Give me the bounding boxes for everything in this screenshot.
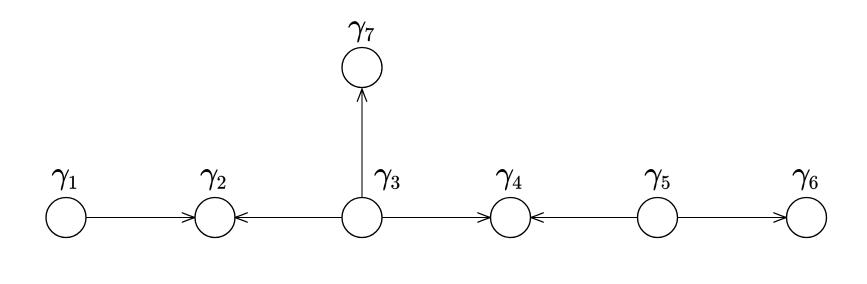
arrowhead gamma5-to-gamma6 xyxy=(774,213,787,222)
label gamma_7 xyxy=(349,21,374,42)
wire edge gamma5-to-gamma6 xyxy=(678,217,787,219)
arrowhead gamma3-to-gamma7 xyxy=(357,89,366,102)
label gamma_1 xyxy=(52,169,76,190)
label gamma_3 xyxy=(375,169,400,190)
node gamma_2 circle xyxy=(195,198,235,238)
wire edge gamma5-to-gamma4 xyxy=(531,217,638,219)
label gamma_5 xyxy=(645,169,670,190)
node gamma_6 circle xyxy=(787,198,827,238)
label gamma_4 xyxy=(496,169,521,190)
arrowhead gamma3-to-gamma2 xyxy=(235,213,248,222)
wire edge gamma3-to-gamma4 xyxy=(382,217,490,219)
node gamma_1 circle xyxy=(46,198,86,238)
arrowhead gamma1-to-gamma2 xyxy=(182,213,195,222)
wire edge gamma1-to-gamma2 xyxy=(86,217,195,219)
label gamma_6 xyxy=(793,169,818,190)
node gamma_3 circle xyxy=(342,198,382,238)
wire edge gamma3-to-gamma2 xyxy=(235,217,342,219)
label gamma_2 xyxy=(201,169,226,190)
node gamma_5 circle xyxy=(638,198,678,238)
wire edge gamma3-to-gamma7 xyxy=(361,89,363,198)
node gamma_4 circle xyxy=(491,198,531,238)
arrowhead gamma3-to-gamma4 xyxy=(478,213,491,222)
arrowhead gamma5-to-gamma4 xyxy=(531,213,544,222)
node gamma_7 circle xyxy=(342,48,382,88)
